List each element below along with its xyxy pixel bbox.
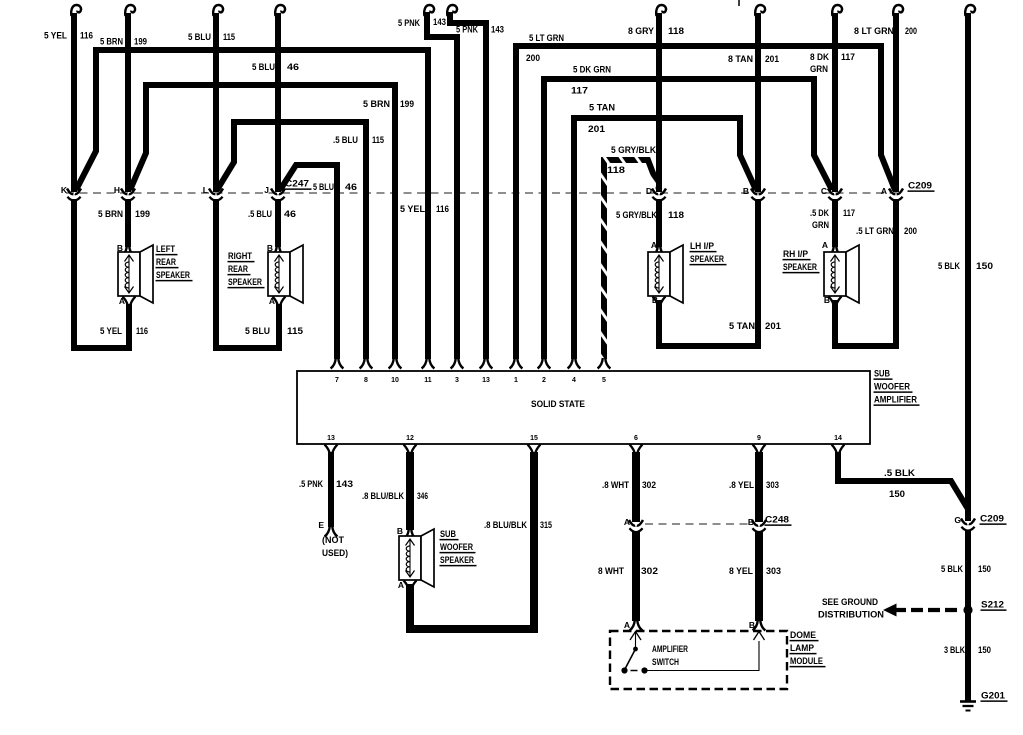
svg-text:150: 150: [978, 564, 991, 575]
svg-text:200: 200: [905, 26, 917, 37]
svg-text:5 BRN: 5 BRN: [100, 37, 123, 48]
svg-text:199: 199: [135, 209, 150, 220]
page continuation tick: [738, 0, 740, 6]
switch symbol: [633, 647, 638, 652]
svg-text:A: A: [822, 240, 828, 250]
svg-text:SPEAKER: SPEAKER: [156, 270, 190, 281]
svg-text:E: E: [318, 520, 324, 530]
svg-text:.5 BLU: .5 BLU: [248, 209, 272, 220]
svg-text:7: 7: [335, 377, 339, 384]
svg-text:2: 2: [542, 377, 546, 384]
svg-text:199: 199: [134, 37, 147, 48]
bus pin4->B (.5 TAN 201): [574, 118, 756, 359]
amp top pin 7: [331, 358, 344, 369]
svg-text:11: 11: [424, 377, 432, 384]
svg-text:C247: C247: [285, 179, 309, 190]
svg-text:8: 8: [364, 377, 368, 384]
bus L->pin8 (.5 BLU 115): [217, 122, 366, 359]
svg-text:199: 199: [400, 99, 414, 110]
svg-text:302: 302: [641, 566, 658, 577]
amp top pin 11: [422, 358, 435, 369]
amp bottom pin 15: [528, 445, 541, 455]
right rear speaker: [268, 252, 290, 296]
svg-text:.5 DK: .5 DK: [810, 208, 829, 219]
svg-text:9: 9: [757, 435, 761, 442]
svg-text:5 GRY/BLK: 5 GRY/BLK: [616, 210, 657, 221]
svg-text:117: 117: [571, 86, 588, 97]
wire .5 PNK 143 #1 -> pin 3: [424, 5, 434, 16]
svg-text:A: A: [269, 296, 275, 306]
svg-text:SPEAKER: SPEAKER: [440, 555, 474, 566]
svg-text:SPEAKER: SPEAKER: [690, 254, 724, 265]
switch terminal arrow A: [630, 632, 641, 641]
ground G201: [960, 700, 976, 703]
RH I/P speaker: [824, 252, 846, 296]
svg-text:3: 3: [455, 377, 459, 384]
svg-text:A: A: [119, 296, 125, 306]
svg-text:G: G: [954, 515, 961, 525]
left rear speaker: [118, 252, 140, 296]
svg-text:WOOFER: WOOFER: [874, 382, 910, 393]
svg-text:L: L: [203, 185, 208, 195]
wire pin12->subwoofer B (.8 BLU/BLK 346): [406, 452, 414, 530]
amp bottom pin 14: [832, 445, 845, 455]
svg-text:46: 46: [287, 62, 299, 73]
wire pin14->G C209 (.5 BLK 150): [838, 452, 968, 509]
svg-text:5 PNK: 5 PNK: [456, 25, 478, 36]
svg-text:SPEAKER: SPEAKER: [228, 277, 262, 288]
svg-text:115: 115: [287, 326, 304, 337]
svg-text:C: C: [821, 186, 827, 196]
bus pin2->C (.5 DK GRN 117): [544, 79, 832, 359]
svg-text:.8 YEL: .8 YEL: [729, 480, 754, 491]
svg-text:5 BLU: 5 BLU: [252, 62, 275, 73]
svg-text:AMPLIFIER: AMPLIFIER: [652, 644, 688, 654]
svg-text:4: 4: [572, 377, 576, 384]
svg-text:8 LT GRN: 8 LT GRN: [854, 26, 894, 37]
connector C248 dashed line: [645, 523, 751, 525]
svg-text:5 BLK: 5 BLK: [938, 261, 960, 272]
svg-text:LAMP: LAMP: [790, 643, 815, 654]
svg-text:46: 46: [284, 209, 296, 220]
svg-text:SPEAKER: SPEAKER: [783, 262, 817, 273]
amp bottom pin 13: [325, 445, 338, 455]
svg-text:5 BLU: 5 BLU: [245, 326, 270, 337]
svg-text:5 PNK: 5 PNK: [398, 18, 420, 29]
svg-text:8 TAN: 8 TAN: [728, 54, 753, 65]
svg-text:5 YEL: 5 YEL: [100, 326, 122, 337]
switch terminal arrow B: [754, 632, 765, 641]
svg-text:GRN: GRN: [812, 220, 829, 231]
svg-text:B: B: [117, 243, 123, 253]
svg-text:1: 1: [514, 377, 518, 384]
amp bottom pin 12: [404, 445, 417, 455]
svg-text:LEFT: LEFT: [156, 244, 175, 255]
svg-text:SWITCH: SWITCH: [652, 657, 679, 667]
wire D (8 GRY 118): [656, 5, 666, 16]
svg-text:S212: S212: [981, 600, 1004, 611]
svg-text:6: 6: [634, 435, 638, 442]
svg-text:B: B: [748, 517, 754, 527]
bus K->pin11 (.5 YEL 116): [76, 50, 428, 359]
sub woofer amplifier box (SOLID STATE): [297, 371, 870, 444]
svg-text:118: 118: [668, 26, 684, 37]
amp bottom pin 6: [630, 445, 643, 455]
svg-text:315: 315: [540, 520, 553, 531]
svg-text:118: 118: [607, 165, 625, 176]
sub woofer speaker: [399, 536, 421, 580]
svg-text:SUB: SUB: [874, 369, 890, 380]
amplifier switch (dashed box): [610, 631, 787, 689]
svg-text:5 YEL: 5 YEL: [400, 204, 425, 215]
svg-text:5 BLU: 5 BLU: [188, 32, 211, 43]
svg-text:115: 115: [372, 135, 385, 146]
svg-text:GRN: GRN: [810, 64, 828, 75]
svg-text:USED): USED): [322, 548, 348, 559]
svg-text:REAR: REAR: [156, 257, 176, 268]
svg-text:LH I/P: LH I/P: [690, 241, 715, 252]
svg-text:3 BLK: 3 BLK: [944, 645, 965, 656]
svg-text:K: K: [61, 185, 68, 195]
svg-text:.5 LT GRN: .5 LT GRN: [856, 226, 894, 237]
see ground distribution dashed arrow: [894, 608, 962, 612]
svg-text:RH I/P: RH I/P: [783, 249, 809, 260]
svg-text:SUB: SUB: [440, 529, 456, 540]
svg-text:B: B: [824, 295, 830, 305]
svg-text:143: 143: [491, 25, 504, 36]
svg-text:5: 5: [602, 377, 606, 384]
svg-text:201: 201: [765, 321, 782, 332]
svg-text:B: B: [652, 295, 658, 305]
svg-text:5 GRY/BLK: 5 GRY/BLK: [611, 145, 656, 156]
svg-text:302: 302: [642, 480, 656, 491]
svg-text:116: 116: [436, 204, 449, 215]
svg-text:10: 10: [391, 377, 399, 384]
svg-text:116: 116: [80, 31, 93, 42]
svg-text:.5 PNK: .5 PNK: [299, 479, 323, 490]
svg-text:DISTRIBUTION: DISTRIBUTION: [818, 610, 884, 621]
svg-text:15: 15: [530, 435, 538, 442]
svg-text:8 GRY: 8 GRY: [628, 26, 655, 37]
svg-text:.5 BLK: .5 BLK: [884, 468, 915, 479]
amp top pin 5: [598, 358, 611, 369]
svg-text:D: D: [646, 186, 652, 196]
svg-text:B: B: [267, 243, 273, 253]
wire 5 BLK 150 (right main ground wire): [965, 5, 975, 16]
svg-text:AMPLIFIER: AMPLIFIER: [874, 395, 917, 406]
svg-text:200: 200: [904, 226, 917, 237]
bus H->pin10 (.5 BRN 199): [130, 85, 395, 359]
bus pin1->A (.5 LT GRN 200): [516, 46, 895, 359]
svg-text:5 BLK: 5 BLK: [941, 564, 963, 575]
amp top pin 3: [451, 358, 464, 369]
amp top pin 4: [568, 358, 581, 369]
svg-text:150: 150: [889, 489, 905, 500]
svg-text:A: A: [881, 186, 887, 196]
svg-text:5 TAN: 5 TAN: [729, 321, 755, 332]
LH I/P speaker: [648, 252, 670, 296]
svg-text:303: 303: [766, 480, 779, 491]
svg-text:150: 150: [976, 261, 993, 272]
svg-text:B: B: [749, 620, 755, 630]
amp top pin 13: [480, 358, 493, 369]
svg-text:B: B: [397, 526, 403, 536]
svg-text:116: 116: [136, 326, 148, 337]
svg-text:5 YEL: 5 YEL: [44, 31, 67, 42]
svg-text:SEE GROUND: SEE GROUND: [822, 597, 878, 608]
svg-text:C209: C209: [980, 514, 1004, 525]
svg-text:MODULE: MODULE: [790, 656, 823, 667]
S212 splice node: [963, 605, 972, 614]
amp top pin 2: [538, 358, 551, 369]
svg-text:118: 118: [668, 210, 684, 221]
svg-text:346: 346: [417, 491, 428, 502]
svg-text:SOLID STATE: SOLID STATE: [531, 399, 585, 410]
amp top pin 1: [510, 358, 523, 369]
svg-text:117: 117: [843, 208, 855, 219]
svg-text:46: 46: [345, 182, 357, 193]
wire pin13->E (.5 PNK 143, not used): [328, 452, 334, 527]
svg-text:REAR: REAR: [228, 264, 248, 275]
wire pin15->subwoofer A (.8 BLU/BLK 315): [410, 452, 534, 629]
svg-text:J: J: [264, 185, 269, 195]
svg-text:.5 BLU: .5 BLU: [333, 135, 358, 146]
connector line C247/C209 (dashed): [66, 192, 903, 194]
svg-text:A: A: [624, 517, 630, 527]
svg-text:.8 WHT: .8 WHT: [602, 480, 629, 491]
wire J (.5 BLU 46): [275, 5, 285, 16]
svg-text:DOME: DOME: [790, 630, 816, 641]
wire K (.5 YEL 116): [71, 5, 81, 16]
svg-text:201: 201: [765, 54, 780, 65]
svg-text:5 BRN: 5 BRN: [363, 99, 390, 110]
svg-text:B: B: [743, 186, 749, 196]
svg-text:13: 13: [482, 377, 490, 384]
svg-text:(NOT: (NOT: [322, 535, 344, 546]
svg-text:8 DK: 8 DK: [810, 52, 829, 63]
wire pin9->switch B (.8 YEL 303): [755, 452, 763, 522]
svg-text:RIGHT: RIGHT: [228, 251, 252, 262]
wire L (.5 BLU 115): [213, 5, 223, 16]
svg-text:5 LT GRN: 5 LT GRN: [529, 33, 564, 44]
svg-text:.8 BLU/BLK: .8 BLU/BLK: [362, 491, 404, 502]
svg-text:5 BLU: 5 BLU: [313, 182, 334, 193]
svg-text:200: 200: [526, 53, 540, 64]
svg-text:5 BRN: 5 BRN: [98, 209, 123, 220]
bus J->pin7 (.5 BLU 46): [280, 165, 337, 359]
svg-text:A: A: [398, 580, 404, 590]
wire pin5->D (.5 GRY/BLK 118, striped): [604, 160, 659, 359]
svg-text:.8 BLU/BLK: .8 BLU/BLK: [484, 520, 527, 531]
wire H (.5 BRN 199): [125, 5, 135, 16]
svg-text:115: 115: [223, 32, 236, 43]
svg-text:A: A: [624, 620, 630, 630]
svg-text:14: 14: [834, 435, 842, 442]
svg-text:C248: C248: [765, 515, 789, 526]
svg-text:WOOFER: WOOFER: [440, 542, 473, 553]
svg-text:5 TAN: 5 TAN: [589, 103, 615, 114]
svg-text:117: 117: [841, 52, 855, 63]
svg-text:G201: G201: [981, 691, 1006, 702]
svg-text:143: 143: [336, 479, 353, 490]
svg-text:A: A: [651, 240, 657, 250]
svg-text:H: H: [114, 185, 120, 195]
svg-text:303: 303: [766, 566, 781, 577]
wire A (8 LT GRN 200): [893, 5, 903, 16]
wire .5 PNK 143 #2 -> pin 13: [447, 5, 457, 16]
wire B (8 TAN 201): [755, 5, 765, 16]
svg-text:201: 201: [588, 124, 606, 135]
amp bottom pin 9: [753, 445, 766, 455]
svg-text:13: 13: [327, 435, 335, 442]
svg-text:150: 150: [978, 645, 991, 656]
svg-text:5 DK GRN: 5 DK GRN: [573, 65, 611, 76]
svg-text:12: 12: [406, 435, 414, 442]
svg-text:C209: C209: [908, 181, 932, 192]
wire C (8 DK GRN 117): [832, 5, 842, 16]
amp top pin 8: [360, 358, 373, 369]
svg-text:8 WHT: 8 WHT: [598, 566, 624, 577]
svg-text:143: 143: [433, 17, 446, 28]
amp top pin 10: [389, 358, 402, 369]
wire pin6->switch A (.8 WHT 302): [632, 452, 640, 522]
svg-text:8 YEL: 8 YEL: [729, 566, 753, 577]
